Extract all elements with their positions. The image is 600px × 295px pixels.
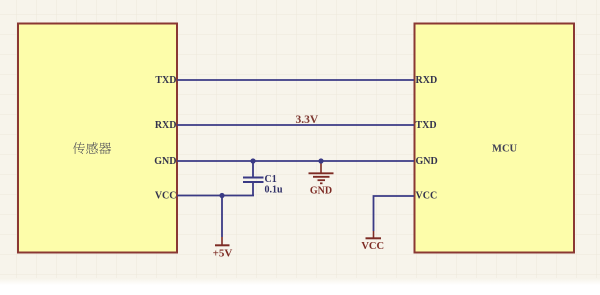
svg-text:3.3V: 3.3V: [296, 114, 319, 126]
power symbol +5V: [213, 237, 233, 260]
svg-text:GND: GND: [416, 156, 438, 167]
svg-text:VCC: VCC: [155, 191, 177, 202]
label 传感器 (sensor) as paths: [73, 142, 111, 154]
wire GND-GND: [177, 160, 414, 162]
junction on VCC wire at +5V drop: [219, 193, 224, 198]
MCU block U?: [415, 24, 575, 253]
wire MCU VCC: [374, 196, 415, 231]
wire to +5V: [221, 196, 223, 238]
sensor block 传感器: [18, 24, 177, 253]
svg-text:RXD: RXD: [416, 75, 438, 86]
svg-text:MCU: MCU: [492, 144, 517, 155]
svg-text:+5V: +5V: [213, 248, 233, 260]
wire VCC (sensor to C1): [177, 195, 254, 197]
power symbol VCC: [361, 231, 384, 252]
svg-text:0.1u: 0.1u: [265, 185, 284, 196]
capacitor C1: [243, 161, 283, 196]
wire TXD-RXD: [177, 79, 414, 81]
svg-text:C1: C1: [265, 174, 277, 185]
svg-text:VCC: VCC: [416, 191, 438, 202]
ground symbol GND: [309, 161, 334, 197]
svg-text:GND: GND: [154, 156, 176, 167]
svg-text:VCC: VCC: [361, 241, 384, 252]
svg-text:RXD: RXD: [155, 120, 177, 131]
junction on GND wire at C1: [250, 158, 255, 163]
svg-text:TXD: TXD: [416, 120, 437, 131]
svg-text:GND: GND: [310, 186, 332, 197]
svg-text:TXD: TXD: [155, 75, 176, 86]
junction on GND wire at ground symbol: [318, 158, 323, 163]
wire RXD-TXD net 3.3V: [177, 124, 414, 126]
